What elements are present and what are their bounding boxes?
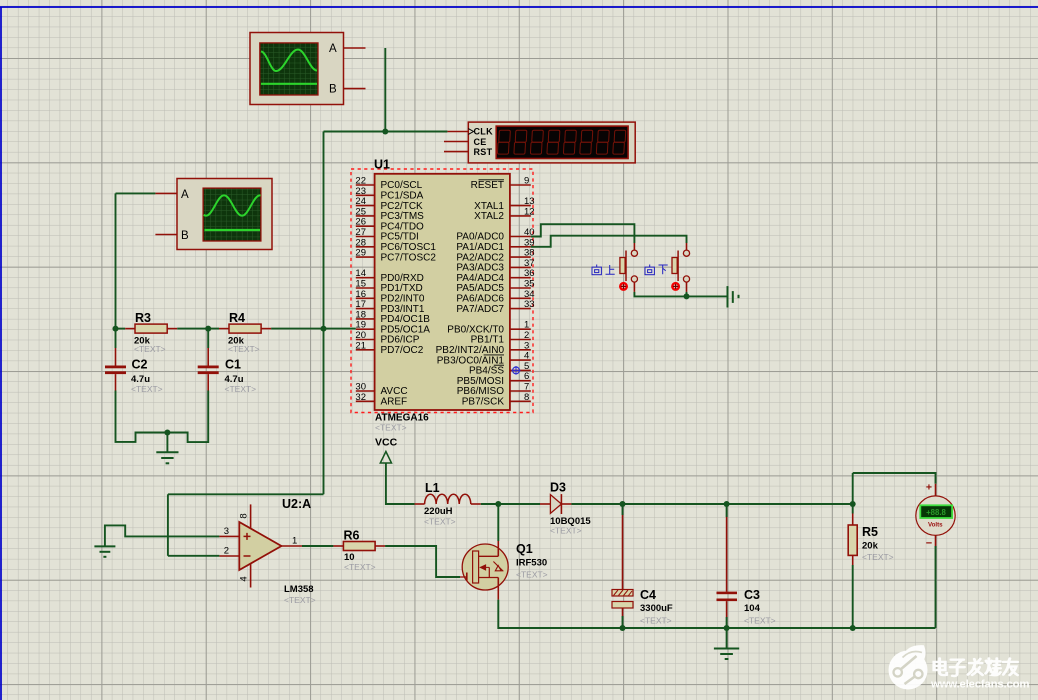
transistor Q1 body (462, 544, 508, 590)
svg-text:12: 12 (524, 206, 535, 217)
Q1 internal symbol (460, 541, 503, 600)
button up actuator marker (620, 283, 627, 290)
scope2 screen (203, 188, 261, 241)
wire vcc down (386, 463, 415, 504)
svg-text:C1: C1 (225, 358, 241, 372)
scope2 pin A stub (155, 192, 177, 194)
svg-text:PC7/TOSC2: PC7/TOSC2 (381, 252, 437, 263)
ground symbol buttons (728, 286, 739, 307)
svg-text:<TEXT>: <TEXT> (284, 595, 316, 605)
svg-text:<TEXT>: <TEXT> (424, 517, 456, 527)
U1 pin 15 PD1/TXD (355, 279, 422, 295)
capacitor C4 (612, 590, 633, 617)
svg-text:www.elecfans.com: www.elecfans.com (930, 679, 1029, 691)
U1 origin marker pin5 (512, 366, 521, 375)
wire ground rail (498, 600, 935, 628)
svg-text:AREF: AREF (381, 397, 408, 408)
U2:A pin 2 stub (219, 555, 239, 557)
wire r4 to pin19 (271, 328, 356, 330)
svg-text:PB7/SCK: PB7/SCK (462, 397, 505, 408)
svg-text:VCC: VCC (375, 437, 398, 449)
U1 pin 30 AVCC (355, 382, 407, 398)
svg-text:PA7/ADC7: PA7/ADC7 (456, 304, 504, 315)
svg-text:<TEXT>: <TEXT> (344, 562, 376, 572)
svg-text:32: 32 (355, 392, 366, 403)
junction c3 bottom (724, 625, 730, 631)
junction c4 top (620, 501, 626, 507)
scope2 channel A trace (204, 195, 261, 215)
wire buttons to ground (634, 292, 727, 297)
sheet border left (0, 7, 2, 700)
svg-text:<TEXT>: <TEXT> (375, 423, 407, 433)
svg-text:D3: D3 (550, 481, 566, 495)
svg-text:CE: CE (474, 137, 487, 147)
U1 pin 8 PB7/SCK (462, 392, 531, 408)
svg-text:+88.8: +88.8 (926, 508, 946, 517)
op-amp U2:A body (239, 522, 281, 570)
diode D3 (540, 494, 571, 514)
wire c2 top (115, 329, 117, 348)
svg-text:2: 2 (224, 546, 229, 557)
wire r3 to r4 (177, 328, 219, 330)
svg-text:<TEXT>: <TEXT> (862, 552, 894, 562)
oscilloscope scope2 body (177, 179, 272, 250)
wire r5 bottom lead (852, 555, 854, 628)
junction filter gnd (164, 430, 170, 436)
U1 pin 6 PB5/MOSI (457, 371, 531, 387)
svg-text:<TEXT>: <TEXT> (516, 570, 548, 580)
U1 pin 13 XTAL1 (474, 196, 534, 212)
U1 pin 12 XTAL2 (474, 206, 534, 222)
junction r5 top (850, 501, 856, 507)
U1 pin 28 PC6/TOSC1 (355, 237, 436, 253)
wire c1 to gnd (167, 391, 208, 443)
wire feedback down (167, 494, 169, 556)
svg-text:R6: R6 (344, 529, 360, 543)
button up switch (620, 243, 638, 292)
wire c3 bottom (726, 617, 728, 628)
watermark text dianzifashaoyou (934, 659, 1018, 676)
svg-text:B: B (181, 230, 189, 242)
U1 pin 26 PC4/TDO (355, 217, 424, 233)
resistor R4 (219, 324, 271, 333)
wire voltmeter bottom (935, 535, 937, 628)
svg-text:B: B (329, 84, 337, 96)
svg-text:<TEXT>: <TEXT> (744, 616, 776, 626)
svg-text:<TEXT>: <TEXT> (134, 344, 166, 354)
svg-text:CLK: CLK (474, 127, 494, 137)
button down actuator marker (672, 283, 679, 290)
junction l1 d3 q1 (495, 501, 501, 507)
U1 pin 14 PD0/RXD (355, 268, 423, 284)
capacitor C3 (717, 592, 738, 617)
ground symbol output (714, 628, 739, 659)
U1 pin 18 PD4/OC1B (355, 309, 430, 325)
junction r5 bottom (850, 625, 856, 631)
svg-text:U1: U1 (374, 158, 390, 172)
junction c4 bottom (620, 625, 626, 631)
button up label (592, 265, 615, 275)
svg-text:IRF530: IRF530 (516, 558, 547, 569)
svg-text:<TEXT>: <TEXT> (131, 384, 163, 394)
7seg pin CLK stub (447, 131, 468, 133)
wire d3 to r5 (571, 503, 852, 505)
svg-text:20k: 20k (862, 541, 879, 552)
junction clk node (382, 129, 388, 135)
scope1 pin A stub (344, 47, 366, 49)
U1 pin 9 RESET (471, 176, 531, 192)
U2:A plus symbol (244, 533, 251, 540)
wire pa1 to button2 (531, 236, 687, 247)
U1 pin 16 PD2/INT0 (355, 289, 424, 305)
7seg pin CE stub (444, 141, 468, 143)
wire voltmeter top (853, 473, 936, 504)
wire feedback to pin2 (168, 555, 220, 557)
svg-text:1: 1 (292, 536, 297, 547)
wire opamp plus input (105, 525, 219, 546)
U1 pin 4 PB3/OC0/AIN1 (437, 351, 531, 367)
svg-text:29: 29 (355, 248, 366, 259)
resistor R5 (848, 525, 857, 555)
scope2 pin B stub (155, 234, 177, 236)
svg-text:8: 8 (239, 513, 250, 518)
wire clk horizontal (324, 131, 448, 133)
U1 pin 39 PA1/ADC1 (456, 237, 534, 253)
U1 pin 40 PA0/ADC0 (456, 227, 534, 243)
svg-text:RST: RST (474, 147, 493, 157)
svg-text:R3: R3 (135, 311, 151, 325)
U1 chip body (375, 174, 510, 410)
U1 pin 17 PD3/INT1 (355, 299, 424, 315)
svg-text:<TEXT>: <TEXT> (228, 344, 260, 354)
svg-text:3: 3 (224, 526, 229, 537)
svg-text:RESET: RESET (471, 180, 504, 191)
U1 pin 38 PA2/ADC2 (456, 248, 534, 264)
junction c3 top (724, 501, 730, 507)
resistor R6 (333, 542, 385, 551)
button down label (645, 265, 668, 275)
scope1 channel A trace (261, 50, 317, 72)
U2:A pin 1 stub (281, 545, 302, 547)
watermark logo circle (889, 645, 928, 689)
wire pwm vertical (323, 132, 325, 495)
svg-text:C3: C3 (744, 588, 760, 602)
svg-text:A: A (329, 43, 337, 55)
svg-text:A: A (181, 189, 189, 201)
U2:A pin 3 stub (219, 535, 239, 537)
svg-text:R5: R5 (862, 525, 878, 539)
scope2 channel B trace (205, 229, 261, 231)
svg-text:PD7/OC2: PD7/OC2 (381, 345, 424, 356)
U1 pin 1 PB0/XCK/T0 (447, 320, 531, 336)
scope1 channel B trace (261, 83, 317, 85)
U2:A pin 8 stub (250, 504, 252, 528)
sheet border top (0, 6, 1038, 8)
U1 pin 23 PC1/SDA (355, 186, 423, 202)
scope1 pin B stub (344, 88, 366, 90)
voltmeter body (916, 496, 955, 535)
capacitor C1 (198, 348, 219, 391)
7seg unlit digits (497, 130, 625, 154)
wire c3 top lead (726, 504, 728, 592)
U1 pin 20 PD6/ICP (355, 330, 419, 346)
7seg pin RST stub (444, 151, 468, 153)
U1 pin 25 PC3/TMS (355, 206, 424, 222)
svg-text:9: 9 (524, 176, 529, 187)
wire r5 top lead (852, 504, 854, 525)
U1 pin 34 PA6/ADC6 (456, 289, 534, 305)
wire scope2A left (116, 192, 156, 194)
U1 pin 19 PD5/OC1A (355, 320, 430, 336)
junction c1 top (205, 326, 211, 332)
inductor L1 (415, 494, 481, 504)
U1 pin 37 PA3/ADC3 (456, 258, 534, 274)
U2:A minus symbol (244, 555, 251, 557)
wire c4 bottom (622, 616, 624, 628)
wire c4 top lead (622, 504, 624, 590)
U1 pin 36 PA4/ADC4 (456, 268, 534, 284)
svg-text:<TEXT>: <TEXT> (225, 384, 257, 394)
wire scope2A down (115, 193, 117, 328)
capacitor C2 (105, 348, 126, 391)
wire pa0 to button1 (531, 224, 635, 243)
svg-text:104: 104 (744, 603, 761, 614)
svg-text:<TEXT>: <TEXT> (640, 616, 672, 626)
junction button2 gnd (684, 293, 690, 299)
wire scope1A down (384, 48, 386, 132)
svg-text:Q1: Q1 (516, 542, 533, 556)
U1 pin 33 PA7/ADC7 (456, 299, 534, 315)
wire c2 to gnd (116, 391, 168, 442)
U1 pin 3 PB2/INT2/AIN0 (436, 340, 531, 356)
U1 selection dashed box (351, 169, 533, 413)
wire opamp out (302, 545, 333, 547)
svg-text:+: + (926, 482, 932, 494)
wire feedback horizontal (168, 493, 324, 495)
7seg display screen (496, 126, 628, 158)
svg-text:L1: L1 (425, 481, 440, 495)
svg-text:C2: C2 (132, 358, 148, 372)
U1 pin 27 PC5/TDI (355, 227, 418, 243)
U1 pin 5 PB4/SS (469, 361, 531, 377)
svg-text:21: 21 (355, 340, 366, 351)
U1 pin 35 PA5/ADC5 (456, 279, 534, 295)
U1 pin 2 PB1/T1 (471, 330, 531, 346)
svg-text:XTAL2: XTAL2 (474, 211, 504, 222)
svg-text:R4: R4 (229, 311, 245, 325)
svg-text:<TEXT>: <TEXT> (550, 526, 582, 536)
oscilloscope scope1 body (250, 33, 344, 105)
svg-text:−: − (926, 538, 932, 550)
wire r6 to gate (385, 546, 460, 577)
ground symbol filter (156, 433, 178, 464)
U1 pin 32 AREF (355, 392, 407, 408)
svg-text:U2:A: U2:A (282, 497, 311, 511)
7seg display body (468, 122, 635, 163)
U1 pin 29 PC7/TOSC2 (355, 248, 436, 264)
U1 pin 7 PB6/MISO (457, 382, 531, 398)
ground symbol opamp (94, 546, 115, 556)
svg-text:LM358: LM358 (284, 584, 314, 595)
U1 pin 21 PD7/OC2 (355, 340, 423, 356)
junction pwm r4 node (321, 326, 327, 332)
wire c1 top (207, 329, 209, 348)
7seg clock input triangle (468, 129, 473, 135)
VCC arrow symbol (380, 452, 391, 464)
U1 pin 24 PC2/TCK (355, 196, 423, 212)
junction r3 left (113, 326, 119, 332)
svg-text:33: 33 (524, 299, 535, 310)
voltmeter lcd (920, 505, 952, 518)
button down switch (672, 243, 690, 292)
svg-text:Volts: Volts (928, 522, 943, 529)
scope1 screen (260, 43, 318, 95)
svg-text:C4: C4 (640, 588, 656, 602)
wire drain (497, 504, 499, 541)
wire l1 to node (481, 503, 540, 505)
svg-text:3300uF: 3300uF (640, 603, 673, 614)
wire r3 left node (116, 328, 126, 330)
svg-text:4: 4 (239, 576, 250, 581)
resistor R3 (125, 324, 177, 333)
svg-text:220uH: 220uH (424, 506, 453, 517)
U1 pin 22 PC0/SCL (355, 176, 422, 192)
svg-text:8: 8 (524, 392, 529, 403)
U2:A pin 4 stub (250, 564, 252, 588)
